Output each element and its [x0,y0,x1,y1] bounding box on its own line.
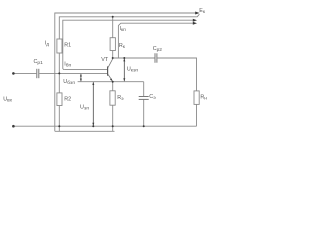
capacitor Cp1 plates [36,69,38,78]
node: input terminal top [12,72,15,75]
transistor VT collector diagonal [108,59,113,68]
node: junction dot line B / Rk [112,16,114,18]
node: rail dot at R2 [58,125,60,127]
wire: line D (collector loop to Ek arrow) [118,23,194,58]
svg-text:VT: VT [101,57,109,63]
resistor Rk [110,38,115,51]
wire: supply line B (from R1 top across to Ek, via Rk tap) [59,14,199,39]
arrowhead Ubep up [80,74,82,77]
wire: collector output wire to Cp2 [113,57,155,59]
svg-text:Rк: Rк [119,43,126,50]
node: Ukep top dot [123,57,125,59]
svg-text:Uкэп: Uкэп [127,67,139,74]
capacitor Cp2 plates [154,53,156,62]
wire: Re top lead [112,82,114,91]
arrowhead Ek line C [193,19,197,22]
arrowhead Ukep down [123,78,125,81]
wire: base feed horizontal (Ibp wire into base) [64,68,107,70]
resistor Rn [194,91,199,105]
voltage arrow Uep (emitter-ground) [92,82,94,126]
node: collector node dot [112,57,114,59]
svg-text:Cэ: Cэ [149,94,156,101]
svg-text:Iд: Iд [45,41,50,48]
wire: R2 top lead from base node [58,73,60,93]
wire: Rn bottom lead [196,104,198,126]
wire: Ce top lead from emitter wire corner [143,82,145,97]
svg-text:R1: R1 [64,42,71,48]
node: input terminal bottom [12,125,15,128]
node: rail dot at Re [112,125,114,127]
wire: output wire from Cp2 to load corner [157,58,196,91]
arrowhead Uep up [92,82,94,85]
wire: R1 bottom lead to base node [58,53,60,73]
svg-text:Iкп: Iкп [120,26,127,33]
svg-text:Rн: Rн [200,95,207,102]
wire: Rk top lead from line B [112,17,114,38]
svg-text:Rэ: Rэ [117,95,124,102]
node: base node dot [58,72,60,74]
wire: emitter node wire [78,81,144,83]
wire: input wire from Uvx terminal to Cp1 [13,72,36,74]
node: emitter node dot [112,81,114,83]
svg-text:Cр2: Cр2 [153,46,163,53]
capacitor Ce plates [139,96,149,98]
arrowhead Ek line D [193,22,197,25]
transistor VT base bar [107,66,108,75]
svg-text:R2: R2 [64,96,71,102]
wire: base wire from Cp1 to VT base [39,72,107,74]
svg-text:Uвх: Uвх [3,96,12,103]
transistor VT emitter diagonal [108,74,112,80]
wire: Re bottom lead [112,105,114,131]
svg-text:Iбп: Iбп [64,61,71,68]
transistor VT emitter arrowhead [110,78,112,81]
voltage arrow Ukep (collector-emitter) [123,59,125,82]
arrowhead Ukep up [123,58,125,61]
wire: bottom common rail [13,125,196,127]
voltage arrow Ubep (base-emitter) [80,74,82,81]
wire: supply line A (top rail from left rail to Ek arrow) [55,13,197,131]
wire: line C (base feed loop to Ek arrow) [63,20,195,69]
svg-text:Cр1: Cр1 [34,59,44,66]
node: rail dot at Uep arrow [92,125,94,127]
resistor R2 [57,93,62,106]
svg-text:Uэп: Uэп [80,104,89,111]
resistor Re [110,91,115,105]
arrowhead Ek line A [195,12,199,15]
arrowhead Uep down [92,123,94,126]
node: rail dot at Ce [143,125,145,127]
wire: Ce bottom lead [143,100,145,127]
wire: lower return stub rail [55,130,115,132]
svg-text:Uбэп: Uбэп [63,79,75,86]
wire: Rk bottom lead to collector node [112,51,114,59]
svg-text:Eк: Eк [199,8,206,15]
resistor R1 [57,39,62,53]
arrowhead Ubep down [80,79,82,82]
wire: R2 bottom lead to bottom rails [58,106,60,132]
